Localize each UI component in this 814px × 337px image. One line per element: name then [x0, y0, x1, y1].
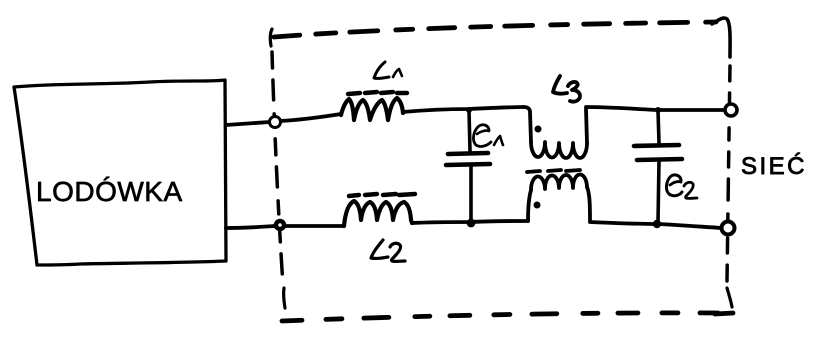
wire L3 to C2 junction to top-right terminal	[586, 107, 725, 110]
label L3	[553, 76, 580, 102]
wire box to top-left terminal	[226, 122, 270, 125]
inductor L1	[341, 98, 403, 120]
label C1	[473, 125, 503, 147]
svg-text:LODÓWKA: LODÓWKA	[36, 176, 183, 207]
capacitor C1	[446, 107, 490, 227]
wire box to bottom-left terminal	[226, 226, 275, 228]
terminal bottom-left	[276, 221, 284, 229]
terminal bottom-right	[722, 222, 735, 235]
wire L3 to C2 bottom junction to bottom-right terminal	[590, 222, 722, 228]
L1 core dashed line	[348, 92, 407, 94]
label SIEC (mains)	[741, 153, 807, 180]
L3 polarity dot bottom	[534, 202, 541, 209]
wire L1 to C1 junction to L3	[403, 107, 524, 112]
filter enclosure dashed box left side	[272, 52, 285, 308]
terminal top-right	[725, 104, 737, 116]
wire top-left terminal to L1	[280, 114, 341, 121]
choke L3 bottom winding with left/right leads	[528, 175, 590, 221]
label C2	[666, 175, 697, 199]
label L2	[371, 240, 405, 261]
L3 core dashed line	[527, 170, 580, 172]
capacitor C2	[634, 107, 682, 228]
terminal top-left	[270, 117, 281, 128]
label L1	[374, 62, 402, 78]
wire L2 to C1 bottom junction to L3	[412, 221, 528, 223]
svg-text:SIEĆ: SIEĆ	[741, 153, 807, 180]
L3 polarity dot top	[535, 126, 542, 133]
filter enclosure dashed box bottom side	[282, 313, 733, 321]
label LODOWKA	[36, 176, 183, 207]
filter enclosure dashed box right side	[727, 66, 732, 307]
filter enclosure dashed box top side	[270, 18, 730, 57]
L2 core dashed line	[349, 194, 415, 196]
wire bottom-left terminal to L2	[285, 224, 344, 228]
choke L3 top winding with left/right leads	[524, 107, 587, 158]
box LODOWKA (refrigerator)	[14, 80, 226, 265]
inductor L2	[344, 201, 412, 226]
